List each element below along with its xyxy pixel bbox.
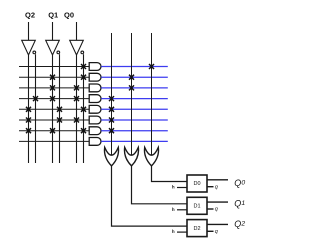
svg-text:q: q xyxy=(215,184,219,190)
svg-text:q: q xyxy=(215,229,219,235)
svg-text:q: q xyxy=(215,207,219,213)
svg-text:D2: D2 xyxy=(193,226,200,232)
svg-text:Q0: Q0 xyxy=(64,10,74,19)
svg-text:Q1: Q1 xyxy=(48,10,58,19)
svg-text:Q1: Q1 xyxy=(234,198,245,208)
svg-text:D0: D0 xyxy=(193,181,200,187)
svg-text:h: h xyxy=(172,229,175,234)
svg-text:h: h xyxy=(172,207,175,212)
svg-text:Q2: Q2 xyxy=(25,10,35,19)
svg-text:D1: D1 xyxy=(193,204,200,210)
svg-text:Q0: Q0 xyxy=(234,178,245,188)
svg-text:h: h xyxy=(172,185,175,190)
svg-text:Q2: Q2 xyxy=(234,219,245,229)
